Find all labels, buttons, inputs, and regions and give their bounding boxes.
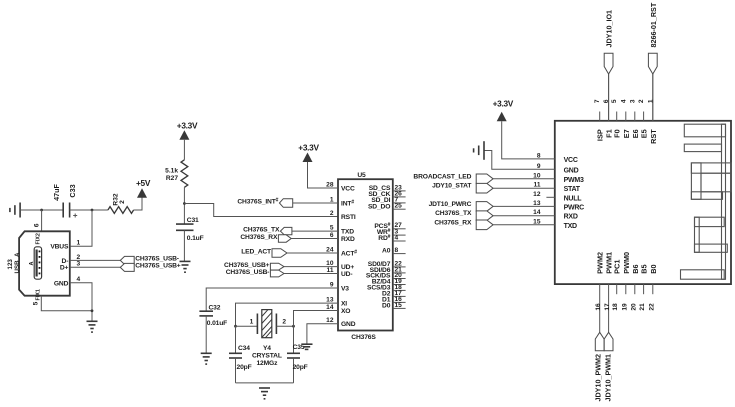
net flag BROADCAST_LED bbox=[413, 173, 554, 183]
U5 pin 11 name/number bbox=[327, 267, 353, 278]
svg-text:VBUS: VBUS bbox=[50, 243, 69, 250]
net flag LED_ACT bbox=[241, 249, 338, 258]
wire bbox=[205, 316, 207, 353]
IC pin 18 PC1 (bottom) bbox=[612, 260, 622, 311]
svg-text:R27: R27 bbox=[166, 175, 178, 182]
IC 8266-01 module box bbox=[555, 121, 731, 284]
connector USB_A labels bbox=[7, 252, 21, 274]
svg-text:14: 14 bbox=[326, 304, 334, 311]
capacitor C31 bbox=[176, 217, 204, 242]
svg-text:STAT: STAT bbox=[564, 186, 581, 193]
IC pin 14 RXD name/number bbox=[533, 209, 578, 221]
svg-text:2: 2 bbox=[330, 210, 334, 217]
svg-text:NULL: NULL bbox=[564, 195, 583, 202]
U5 pin 22 stub/name/number bbox=[368, 260, 406, 268]
svg-text:1: 1 bbox=[330, 197, 334, 204]
net flag JDY10_PWM1 bbox=[604, 332, 613, 401]
U5 pin 8 stub/name/number bbox=[382, 247, 406, 255]
svg-text:25: 25 bbox=[395, 203, 403, 210]
wire VBUS pin 1 bbox=[70, 210, 92, 246]
IC pin 1 RST (top) bbox=[647, 74, 658, 144]
power +3.3V bbox=[177, 121, 198, 140]
svg-text:E5: E5 bbox=[640, 129, 649, 138]
svg-text:5.1k: 5.1k bbox=[165, 168, 178, 175]
svg-text:PWM0: PWM0 bbox=[622, 252, 631, 274]
capacitor C32 bbox=[199, 304, 227, 327]
svg-text:RXD: RXD bbox=[341, 236, 355, 243]
svg-text:CH376S_TX: CH376S_TX bbox=[435, 210, 472, 217]
svg-text:CH376S: CH376S bbox=[351, 334, 376, 341]
IC pin 12 NULL name/number bbox=[533, 191, 582, 203]
ground bbox=[10, 203, 20, 218]
wire bbox=[70, 209, 108, 211]
IC pin 20 B6 (bottom) bbox=[630, 264, 640, 310]
IC pin 16 PWM2 (bottom) bbox=[595, 252, 605, 332]
U5 pin 16 stub/name/number bbox=[382, 296, 406, 304]
svg-text:+3.3V: +3.3V bbox=[177, 121, 198, 131]
svg-text:C33: C33 bbox=[68, 184, 77, 197]
ground bbox=[474, 141, 484, 160]
U5 pin 12 name/number bbox=[326, 317, 356, 328]
svg-text:18: 18 bbox=[612, 303, 619, 311]
U5 pin 14 name/number bbox=[326, 304, 350, 315]
net flag CH376S_USB- bbox=[120, 255, 179, 264]
wire bbox=[183, 230, 185, 261]
svg-text:CH376S_USB+: CH376S_USB+ bbox=[135, 262, 181, 269]
svg-text:RSTI: RSTI bbox=[341, 214, 356, 221]
svg-text:VCC: VCC bbox=[564, 157, 578, 164]
power +5V bbox=[136, 178, 151, 198]
U5 pin 19 stub/name/number bbox=[372, 278, 406, 286]
svg-text:ISP: ISP bbox=[596, 129, 605, 141]
capacitor C33 bbox=[52, 184, 77, 218]
svg-text:+5V: +5V bbox=[136, 178, 151, 188]
U5 pin 28 name/number bbox=[326, 182, 355, 193]
svg-text:15: 15 bbox=[395, 302, 403, 309]
svg-text:F0: F0 bbox=[613, 129, 622, 138]
IC pin 10 PWM3 name/number bbox=[533, 172, 584, 184]
U5 pin 23 stub/name/number bbox=[369, 184, 406, 192]
IC pin 15 TXD name/number bbox=[533, 218, 577, 230]
svg-text:JDT10_PWRC: JDT10_PWRC bbox=[429, 201, 472, 208]
wire bbox=[276, 325, 293, 327]
U5 pin 3 stub/name/number bbox=[377, 228, 406, 236]
svg-text:GND: GND bbox=[341, 321, 356, 328]
svg-text:D+: D+ bbox=[60, 264, 69, 271]
svg-text:CH376S_USB-: CH376S_USB- bbox=[226, 269, 270, 276]
U5 pin 21 stub/name/number bbox=[370, 266, 406, 274]
svg-text:6: 6 bbox=[330, 232, 334, 239]
node junction bbox=[234, 325, 237, 328]
wire GND pin 12 bbox=[307, 324, 338, 344]
U5 pin 1 name/number bbox=[330, 197, 355, 208]
svg-text:5: 5 bbox=[611, 99, 618, 103]
svg-text:8: 8 bbox=[537, 152, 541, 159]
power +3.3V bbox=[493, 98, 514, 121]
wire bbox=[236, 325, 258, 327]
connector USB_A box bbox=[19, 231, 70, 295]
svg-text:XI: XI bbox=[341, 301, 347, 308]
svg-text:TXD: TXD bbox=[564, 223, 577, 230]
wire FIX1 pin 5 bbox=[41, 296, 92, 311]
svg-text:5: 5 bbox=[33, 301, 40, 305]
U5 pin 26 stub/name/number bbox=[368, 190, 405, 198]
IC pin 13 PWRC name/number bbox=[533, 200, 584, 212]
net flag CH376S_INT# bbox=[237, 198, 338, 208]
ground bbox=[180, 261, 191, 272]
svg-text:A0: A0 bbox=[382, 248, 391, 255]
IC pin 3 E6 (top) bbox=[629, 99, 640, 138]
IC pin 19 PWM0 (bottom) bbox=[621, 252, 631, 311]
svg-text:B5: B5 bbox=[640, 264, 649, 273]
svg-text:6: 6 bbox=[34, 223, 41, 227]
USB receptacle graphic bbox=[29, 247, 41, 279]
svg-text:0.1uF: 0.1uF bbox=[187, 235, 204, 242]
svg-text:FIX1: FIX1 bbox=[36, 289, 42, 300]
svg-text:SD_DO: SD_DO bbox=[368, 203, 390, 210]
svg-text:GND: GND bbox=[564, 167, 579, 174]
svg-text:LED_ACT: LED_ACT bbox=[241, 249, 272, 256]
svg-text:1: 1 bbox=[77, 239, 81, 246]
wire bbox=[41, 210, 43, 231]
svg-text:C34: C34 bbox=[238, 345, 250, 352]
ground bbox=[201, 353, 212, 364]
ground bbox=[87, 321, 98, 332]
resistor R27 bbox=[165, 160, 188, 187]
svg-text:VCC: VCC bbox=[341, 185, 355, 192]
IC pin 9 GND name/number bbox=[537, 163, 579, 175]
svg-text:10: 10 bbox=[533, 172, 541, 179]
resistor R32 bbox=[108, 193, 134, 213]
svg-text:3: 3 bbox=[629, 99, 636, 103]
U5 pin 10 name/number bbox=[326, 260, 354, 271]
wire D- pin 2 bbox=[70, 259, 121, 261]
svg-text:B6: B6 bbox=[631, 264, 640, 273]
svg-text:8: 8 bbox=[395, 247, 399, 254]
U5 pin 9 name/number bbox=[330, 282, 349, 293]
svg-text:123: 123 bbox=[7, 259, 14, 270]
svg-text:4: 4 bbox=[620, 99, 627, 103]
power +3.3V bbox=[298, 143, 319, 163]
svg-text:Y4: Y4 bbox=[263, 345, 271, 352]
svg-text:4: 4 bbox=[77, 276, 81, 283]
U5 pin 6 name/number bbox=[330, 232, 355, 243]
svg-text:11: 11 bbox=[327, 267, 334, 274]
wire bbox=[183, 187, 185, 224]
svg-text:2: 2 bbox=[638, 99, 645, 103]
PCB antenna pattern bbox=[681, 124, 732, 279]
svg-text:E6: E6 bbox=[631, 129, 640, 138]
svg-text:CH376S_INT#: CH376S_INT# bbox=[237, 198, 278, 206]
IC pin 22 B0 (bottom) bbox=[648, 264, 658, 310]
svg-text:USB_A: USB_A bbox=[14, 252, 21, 274]
U5 pin 7 stub/name/number bbox=[371, 196, 405, 204]
svg-text:20: 20 bbox=[630, 303, 637, 311]
net flag JDY10_STAT bbox=[432, 183, 555, 193]
svg-text:21: 21 bbox=[639, 303, 646, 311]
node junction bbox=[183, 202, 186, 205]
svg-text:A: A bbox=[29, 261, 35, 265]
svg-text:13: 13 bbox=[326, 297, 334, 304]
svg-text:CH376S_RX: CH376S_RX bbox=[434, 219, 472, 226]
U5 pin 18 stub/name/number bbox=[367, 284, 406, 292]
wire bbox=[183, 140, 185, 160]
net flag JDY10_PWM2 bbox=[594, 332, 605, 401]
svg-text:PWRC: PWRC bbox=[564, 204, 585, 211]
svg-text:47uF: 47uF bbox=[52, 184, 61, 201]
net flag CH376S_USB+ bbox=[120, 262, 181, 271]
svg-text:11: 11 bbox=[534, 182, 541, 189]
U5 pin 2 name/number bbox=[330, 210, 356, 221]
svg-text:UD-: UD- bbox=[341, 271, 352, 278]
svg-text:JDY10_STAT: JDY10_STAT bbox=[432, 183, 472, 190]
U5 pin 24 name/number bbox=[326, 247, 357, 258]
svg-text:CH376S_RX: CH376S_RX bbox=[240, 234, 278, 241]
net flag CH376S_TX bbox=[435, 210, 555, 220]
svg-text:4: 4 bbox=[395, 234, 399, 241]
U5 pin 4 stub/name/number bbox=[378, 234, 405, 242]
node junction bbox=[292, 325, 295, 328]
svg-text:PWM2: PWM2 bbox=[596, 252, 605, 274]
IC pin 4 E7 (top) bbox=[620, 99, 631, 138]
wire GND pin 9 bbox=[484, 151, 555, 170]
wire V3 pin 9 bbox=[206, 288, 338, 311]
svg-text:RST: RST bbox=[649, 129, 658, 144]
svg-text:JDY10_PWM2: JDY10_PWM2 bbox=[594, 354, 603, 402]
svg-text:1: 1 bbox=[250, 319, 254, 326]
wire bbox=[236, 382, 294, 384]
capacitor C34 bbox=[229, 326, 252, 383]
IC pin 21 B5 (bottom) bbox=[639, 264, 649, 310]
svg-text:28: 28 bbox=[326, 182, 334, 189]
svg-text:RXD: RXD bbox=[564, 214, 578, 221]
svg-text:3: 3 bbox=[77, 260, 81, 267]
U5 pin 27 stub/name/number bbox=[374, 222, 405, 230]
node VBUS junction bbox=[40, 209, 43, 212]
net flag CH376S_USB- bbox=[226, 269, 338, 277]
svg-text:D0: D0 bbox=[382, 303, 391, 310]
IC pin 2 E5 (top) bbox=[638, 99, 649, 138]
node junction bbox=[91, 309, 94, 312]
svg-text:7: 7 bbox=[594, 99, 601, 103]
net flag CH376S_USB+ bbox=[224, 262, 338, 270]
svg-text:+3.3V: +3.3V bbox=[298, 143, 319, 153]
IC pin 11 STAT name/number bbox=[534, 182, 581, 194]
svg-text:FIX2: FIX2 bbox=[36, 233, 42, 244]
svg-text:V3: V3 bbox=[341, 285, 349, 292]
IC pin 5 F0 (top) bbox=[611, 99, 622, 138]
IC pin 7 ISP (top) bbox=[594, 99, 605, 141]
svg-text:C32: C32 bbox=[209, 304, 221, 311]
svg-text:XO: XO bbox=[341, 308, 350, 315]
IC pin 8 VCC name/number bbox=[537, 152, 578, 164]
U5 pin 15 stub/name/number bbox=[382, 302, 406, 310]
svg-text:17: 17 bbox=[604, 303, 611, 311]
svg-text:2: 2 bbox=[119, 200, 126, 204]
svg-text:15: 15 bbox=[533, 218, 541, 225]
net flag 8266-01_RST bbox=[648, 2, 657, 121]
svg-text:16: 16 bbox=[595, 303, 602, 311]
svg-text:13: 13 bbox=[533, 200, 541, 207]
net flag JDT10_PWRC bbox=[429, 201, 555, 211]
U5 pin 20 stub/name/number bbox=[366, 272, 406, 280]
svg-text:9: 9 bbox=[330, 282, 334, 289]
svg-text:5: 5 bbox=[330, 225, 334, 232]
U5 pin 5 name/number bbox=[330, 225, 354, 236]
svg-text:24: 24 bbox=[326, 247, 334, 254]
wire XO pin 14 bbox=[294, 311, 339, 327]
svg-text:0.01uF: 0.01uF bbox=[207, 320, 227, 327]
svg-text:JDY10_PWM1: JDY10_PWM1 bbox=[604, 354, 613, 402]
svg-text:+3.3V: +3.3V bbox=[493, 98, 514, 108]
svg-text:20pF: 20pF bbox=[293, 364, 308, 371]
svg-text:12: 12 bbox=[533, 191, 541, 198]
svg-text:E7: E7 bbox=[622, 129, 631, 138]
svg-text:14: 14 bbox=[533, 209, 541, 216]
ground bbox=[259, 388, 270, 399]
capacitor C35 bbox=[287, 326, 308, 383]
wire bbox=[20, 209, 63, 211]
svg-text:12MGz: 12MGz bbox=[256, 360, 278, 367]
wire NULL pin 12 stub bbox=[546, 196, 554, 198]
net flag JDY10_IO1 bbox=[604, 10, 613, 121]
svg-text:20pF: 20pF bbox=[237, 364, 252, 371]
svg-text:PC1: PC1 bbox=[613, 260, 622, 274]
op-amp U5 CH376S box bbox=[338, 179, 393, 330]
wire D+ pin 3 bbox=[70, 266, 121, 268]
IC pin 17 PWM1 (bottom) bbox=[604, 252, 614, 332]
svg-text:GND: GND bbox=[54, 280, 69, 287]
U5 pin 13 name/number bbox=[326, 297, 347, 308]
svg-text:CRYSTAL: CRYSTAL bbox=[252, 353, 282, 360]
wire RSTI bbox=[184, 204, 338, 217]
svg-text:U5: U5 bbox=[357, 172, 366, 179]
svg-text:19: 19 bbox=[621, 303, 628, 311]
wire GND pin 4 bbox=[70, 283, 92, 322]
net flag CH376S_RX bbox=[434, 219, 554, 229]
U5 pin 17 stub/name/number bbox=[382, 290, 406, 298]
wire bbox=[134, 198, 142, 211]
svg-text:TXD: TXD bbox=[341, 229, 354, 236]
U5 pin 25 stub/name/number bbox=[368, 203, 406, 211]
net flag CH376S_RX bbox=[240, 234, 338, 242]
IC pin 6 F1 (top) bbox=[603, 74, 614, 138]
crystal Y4 bbox=[250, 310, 287, 367]
net flag CH376S_TX bbox=[243, 227, 338, 235]
svg-text:BROADCAST_LED: BROADCAST_LED bbox=[413, 173, 471, 180]
svg-text:2: 2 bbox=[282, 319, 286, 326]
svg-text:C31: C31 bbox=[187, 217, 199, 224]
svg-text:8266-01_RST: 8266-01_RST bbox=[649, 2, 658, 47]
wire VCC pin 8 bbox=[502, 121, 555, 159]
ground bbox=[301, 344, 312, 349]
svg-text:JDY10_IO1: JDY10_IO1 bbox=[605, 10, 614, 48]
svg-text:CH376S_TX: CH376S_TX bbox=[243, 227, 280, 234]
svg-text:22: 22 bbox=[648, 303, 655, 311]
svg-text:12: 12 bbox=[326, 317, 334, 324]
svg-text:9: 9 bbox=[537, 163, 541, 170]
svg-text:PWM3: PWM3 bbox=[564, 177, 584, 184]
node junction bbox=[91, 209, 94, 212]
svg-text:B0: B0 bbox=[649, 264, 658, 273]
wire XI pin 13 bbox=[236, 303, 339, 326]
wire VCC pin 28 bbox=[308, 162, 339, 188]
